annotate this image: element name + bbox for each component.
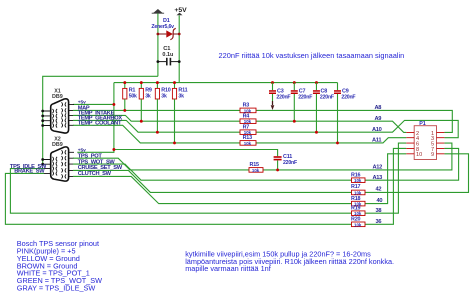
X2 right pin stubs — [69, 152, 74, 176]
wire net TPS_IDLE_SW / 38 — [10, 143, 406, 213]
wire: +5V vertical to X1/X2 — [77, 83, 114, 153]
svg-text:220nF: 220nF — [320, 94, 334, 100]
svg-text:DB9: DB9 — [52, 142, 63, 148]
svg-text:A12: A12 — [373, 164, 383, 170]
svg-text:TEMP_COOLANT: TEMP_COOLANT — [78, 121, 122, 127]
resistor R3 10k — [240, 103, 256, 114]
svg-text:10k: 10k — [354, 178, 362, 183]
capacitor C11 220nF — [274, 154, 297, 170]
connector P1 — [406, 121, 444, 159]
resistor R20 10k — [351, 217, 365, 228]
X2 left pin stubs — [43, 160, 51, 174]
capacitor C3 220nF — [269, 83, 290, 105]
svg-text:+5v: +5v — [78, 99, 86, 105]
svg-text:10k: 10k — [354, 190, 362, 195]
wire net BRAKE_SW / 36 — [5, 148, 406, 224]
resistor R19 10k — [351, 205, 365, 216]
junction dots at D1 — [157, 33, 160, 36]
svg-text:+5v: +5v — [78, 147, 86, 153]
wire net TEMP_GEARBOX / A10 — [73, 120, 458, 137]
wire: GND run left and down X1/X2 pins — [43, 76, 158, 164]
wire: +5V branch row to C11 top — [114, 150, 278, 157]
wire net MAP / A8 — [73, 110, 452, 132]
arrow junction C3 to A8 row — [271, 101, 275, 110]
svg-text:A10: A10 — [372, 127, 382, 133]
svg-text:38: 38 — [376, 208, 382, 214]
junction dots on +5V rail — [123, 81, 126, 84]
wire net TEMP_COOLANT / A11 — [73, 125, 406, 143]
resistor R16 10k — [351, 172, 365, 183]
svg-text:10: 10 — [416, 152, 422, 158]
wire net TEMP_INTAKE / A9 — [73, 115, 406, 132]
supply arrow symbol (left rail) — [152, 9, 164, 13]
resistor R1 50k — [123, 83, 137, 111]
svg-text:mapille varmaan riittää 1nf: mapille varmaan riittää 1nf — [185, 264, 272, 273]
wire: left rail stem (arrow to D1/C1, down to GND run) — [157, 13, 159, 76]
connector X2 DB9 — [43, 137, 74, 182]
annotation delay circuit — [185, 250, 394, 273]
resistor R11 3k — [172, 83, 187, 143]
diode D1 (Zener5,6v) — [151, 18, 179, 40]
junction dots +5V vertical — [112, 103, 115, 106]
X2 pin hooks left column — [53, 157, 58, 176]
svg-text:A11: A11 — [372, 138, 381, 144]
svg-text:3k: 3k — [161, 93, 167, 99]
capacitor C1 0.1u — [157, 46, 181, 66]
junction dots cap bottoms — [293, 120, 296, 123]
wire net CLUTCH_SW / 40 — [73, 154, 406, 204]
wire: X1 +5v row — [73, 103, 114, 105]
junction dot C11 bottom — [276, 168, 279, 171]
resistor R10 3k — [155, 83, 170, 133]
wire net CRUISE_SET_SW / 42 — [73, 154, 469, 193]
svg-text:50k: 50k — [129, 93, 137, 99]
svg-text:36: 36 — [376, 219, 382, 225]
svg-text:D1: D1 — [163, 18, 170, 24]
svg-text:BRAKE_SW: BRAKE_SW — [14, 169, 45, 175]
resistor R15 10k — [249, 162, 263, 173]
svg-text:3k: 3k — [178, 93, 184, 99]
svg-text:40: 40 — [377, 198, 383, 204]
resistor R17 10k — [351, 184, 365, 195]
wire: +5V top rail — [114, 82, 338, 84]
resistor R18 10k — [351, 196, 365, 207]
connector X1 DB9 — [43, 88, 74, 133]
+5V supply symbol — [174, 7, 187, 15]
svg-text:3k: 3k — [145, 93, 151, 99]
X2 pin hooks right column — [62, 150, 67, 178]
svg-text:42: 42 — [376, 187, 382, 193]
X1 left pin stubs — [43, 111, 51, 126]
capacitor C8 220nF — [313, 83, 334, 133]
capacitor C7 220nF — [291, 83, 312, 122]
svg-text:220nF: 220nF — [341, 94, 355, 100]
svg-text:10k: 10k — [244, 141, 252, 146]
svg-text:0.1u: 0.1u — [162, 52, 173, 58]
svg-text:10k: 10k — [354, 211, 362, 216]
svg-text:A8: A8 — [375, 105, 382, 111]
resistor R4 10k — [240, 113, 256, 124]
wire: +5V stem (+5V symbol down through D1,C1 to rail) — [178, 15, 180, 82]
svg-text:GRAY = TPS_IDLE_SW: GRAY = TPS_IDLE_SW — [17, 283, 96, 292]
X1 pin hooks left column — [53, 109, 58, 128]
svg-text:+5V: +5V — [174, 7, 187, 14]
svg-text:DB9: DB9 — [52, 94, 63, 100]
annotation Bosch TPS pinout — [17, 239, 102, 292]
svg-text:A13: A13 — [373, 175, 383, 181]
svg-text:CLUTCH_SW: CLUTCH_SW — [78, 171, 112, 177]
svg-text:Zener5,6v: Zener5,6v — [151, 24, 174, 30]
svg-text:10k: 10k — [252, 168, 260, 173]
resistor R9 3k — [139, 83, 152, 122]
svg-text:220nF: 220nF — [283, 160, 297, 166]
junction dots resistor bottoms — [123, 109, 126, 112]
X1 pin hooks right column — [62, 102, 67, 127]
X1 ground pin junction dots — [41, 110, 44, 113]
svg-text:A9: A9 — [375, 116, 382, 122]
resistor R13 10k — [240, 135, 256, 146]
svg-text:220nF riittää 10k vastuksen jä: 220nF riittää 10k vastuksen jälkeen tasa… — [219, 51, 405, 60]
svg-text:R17: R17 — [351, 184, 360, 190]
svg-text:9: 9 — [431, 152, 434, 158]
svg-text:220nF: 220nF — [276, 94, 290, 100]
svg-text:10k: 10k — [354, 222, 362, 227]
wire net TPS_WOT_SW / A13 — [73, 148, 459, 180]
resistor R7 10k — [240, 124, 256, 135]
wire net TPS_POT / A12 — [73, 143, 452, 170]
capacitor C9 220nF — [334, 83, 355, 143]
svg-text:220nF: 220nF — [298, 94, 312, 100]
X2 ground pin junction dots — [41, 158, 44, 161]
X1 right pin stubs — [69, 104, 74, 125]
svg-text:P1: P1 — [419, 121, 425, 127]
